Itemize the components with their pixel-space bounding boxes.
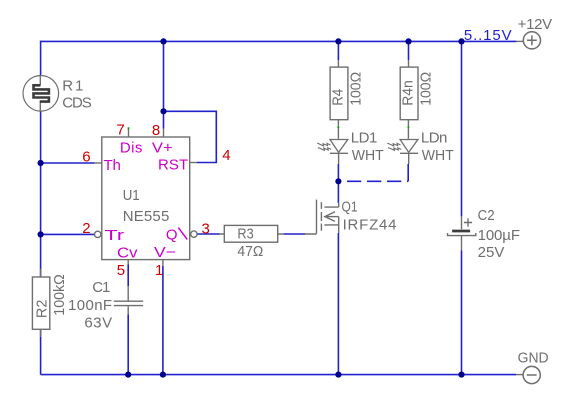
svg-text:25V: 25V	[478, 244, 505, 261]
svg-text:2: 2	[82, 220, 90, 237]
svg-text:+12V: +12V	[518, 16, 553, 33]
svg-text:WHT: WHT	[422, 147, 454, 164]
svg-text:5: 5	[117, 262, 125, 279]
svg-text:1: 1	[155, 262, 163, 279]
svg-text:100Ω: 100Ω	[348, 72, 365, 106]
svg-text:GND: GND	[518, 350, 549, 367]
svg-text:Dis: Dis	[120, 140, 142, 157]
svg-text:C2: C2	[478, 207, 495, 224]
svg-text:RST: RST	[158, 157, 188, 174]
svg-text:IRFZ44: IRFZ44	[343, 216, 397, 233]
svg-text:100nF: 100nF	[68, 297, 112, 314]
svg-text:63V: 63V	[84, 315, 112, 332]
svg-text:R3: R3	[237, 226, 253, 243]
svg-text:5..15V: 5..15V	[464, 27, 512, 44]
svg-text:R1: R1	[62, 78, 83, 95]
svg-text:LDn: LDn	[421, 129, 448, 146]
svg-text:100µF: 100µF	[478, 227, 520, 244]
svg-text:4: 4	[222, 147, 230, 164]
svg-text:WHT: WHT	[352, 147, 384, 164]
svg-text:100Ω: 100Ω	[418, 72, 435, 106]
svg-text:Tr: Tr	[105, 227, 125, 244]
svg-text:V−: V−	[154, 244, 176, 261]
svg-text:8: 8	[152, 122, 160, 139]
svg-text:R4: R4	[329, 89, 346, 106]
svg-text:R2: R2	[33, 300, 50, 319]
svg-text:NE555: NE555	[123, 208, 170, 225]
svg-text:CDS: CDS	[62, 95, 92, 112]
svg-text:V+: V+	[152, 140, 173, 157]
svg-text:R4n: R4n	[399, 80, 416, 106]
svg-text:6: 6	[82, 149, 90, 166]
svg-text:LD1: LD1	[351, 129, 378, 146]
svg-text:7: 7	[116, 122, 124, 139]
svg-text:U1: U1	[123, 187, 140, 204]
svg-text:3: 3	[202, 221, 210, 238]
svg-text:Q: Q	[166, 226, 178, 243]
svg-text:100kΩ: 100kΩ	[51, 274, 68, 316]
svg-text:C1: C1	[92, 279, 110, 296]
svg-text:Th: Th	[104, 157, 121, 174]
svg-text:47Ω: 47Ω	[237, 243, 263, 260]
svg-text:Q1: Q1	[342, 199, 358, 216]
svg-text:Cv: Cv	[117, 245, 138, 262]
